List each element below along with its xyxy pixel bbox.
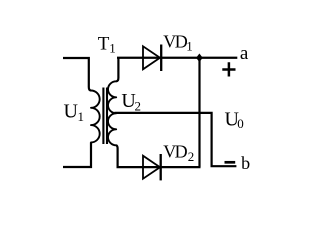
svg-text:1: 1 (186, 39, 193, 54)
wire: node a vertical to VD2 cathode (198, 58, 200, 167)
transformer T1 secondary winding (U2, center tapped) (108, 81, 116, 145)
transformer T1 secondary top lead wire (116, 58, 118, 81)
transformer T1 core bar left (102, 88, 104, 145)
svg-text:2: 2 (135, 99, 142, 114)
svg-text:0: 0 (237, 116, 244, 131)
svg-text:2: 2 (188, 149, 195, 164)
diode VD1 triangle (143, 46, 160, 69)
junction dot at node a (196, 54, 203, 63)
transformer T1 primary top lead wire (63, 58, 91, 91)
transformer T1 primary winding (U1) (91, 91, 100, 143)
transformer T1 core bar right (106, 88, 108, 145)
svg-text:1: 1 (109, 41, 116, 56)
diode VD2 cathode bar (160, 154, 162, 180)
wire: secondary bottom to VD2 anode (117, 166, 201, 168)
svg-text:VD: VD (163, 142, 187, 162)
diode VD2 triangle (143, 156, 160, 179)
svg-text:a: a (240, 43, 249, 64)
svg-text:1: 1 (78, 109, 85, 124)
svg-text:T: T (98, 33, 110, 54)
transformer T1 primary bottom lead wire (63, 142, 91, 167)
svg-text:b: b (241, 153, 250, 173)
svg-text:VD: VD (163, 32, 187, 52)
transformer T1 secondary bottom lead wire (116, 145, 117, 167)
svg-text:U: U (64, 101, 79, 123)
wire: secondary top to VD1 anode and node a / terminal a (117, 57, 237, 59)
diode VD1 cathode bar (160, 45, 162, 72)
plus sign at terminal a (222, 62, 235, 76)
wire: center tap to terminal b (crosses node-a wire) (114, 113, 236, 166)
minus sign at terminal b (225, 161, 236, 164)
